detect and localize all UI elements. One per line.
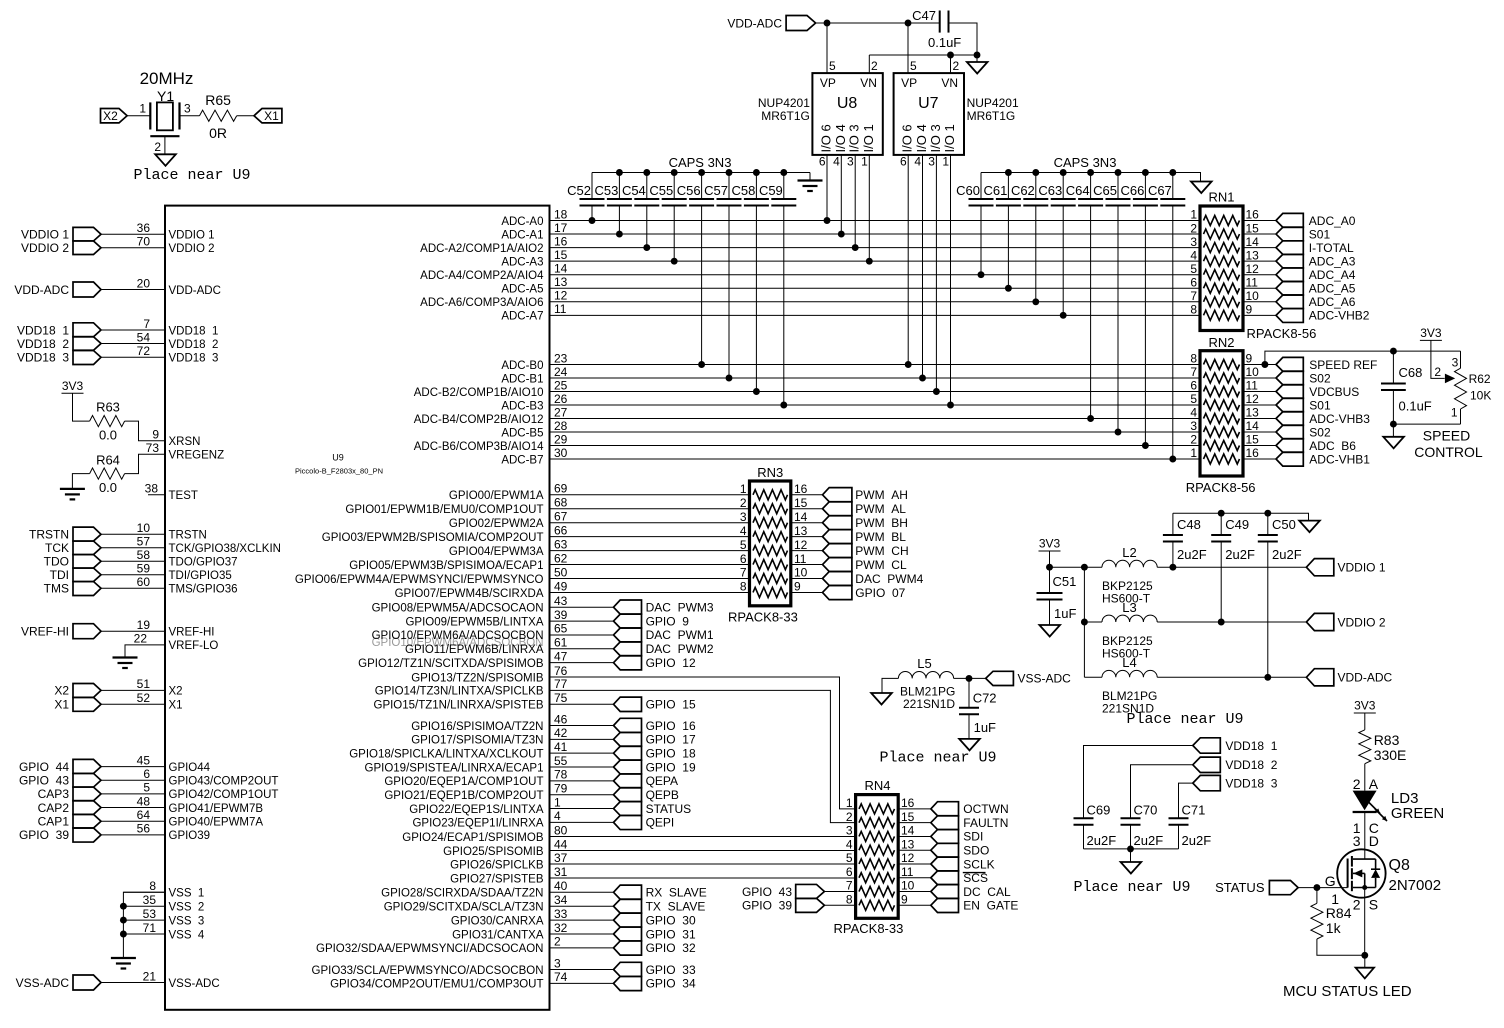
- svg-text:STATUS: STATUS: [1215, 880, 1265, 895]
- svg-text:VDD18 2: VDD18 2: [17, 337, 69, 351]
- junction C54 at ADC row: [643, 244, 650, 251]
- port VDD-ADC (filter): [1306, 669, 1333, 686]
- svg-text:25: 25: [554, 378, 568, 392]
- port ADC_A0: [1276, 213, 1303, 227]
- svg-text:7: 7: [1190, 365, 1197, 379]
- svg-text:X2: X2: [169, 686, 183, 698]
- svg-text:XRSN: XRSN: [169, 436, 201, 448]
- svg-text:PWM AL: PWM AL: [855, 502, 906, 516]
- wire RN4 pin 14 to port: [898, 835, 931, 837]
- svg-text:GPIO33/SCLA/EPWMSYNCO/ADCSOCBO: GPIO33/SCLA/EPWMSYNCO/ADCSOCBON: [312, 965, 544, 977]
- svg-text:5: 5: [829, 59, 836, 73]
- junction C59 at ADC row: [780, 402, 787, 409]
- wire U8 I/O pin to ADC row: [854, 155, 856, 248]
- wire to pin 64: [101, 820, 165, 822]
- svg-text:Place near U9: Place near U9: [1126, 711, 1243, 728]
- svg-text:23: 23: [554, 351, 568, 365]
- wire RN4 pin 15 to port: [898, 822, 931, 824]
- svg-text:GPIO 43: GPIO 43: [742, 885, 792, 899]
- junction U8 pin at ADC row: [866, 258, 873, 265]
- junction C68 top: [1390, 348, 1397, 355]
- wire RN3 pin 14 to port: [791, 522, 823, 524]
- resistor RN2 element 2: [1204, 373, 1240, 383]
- ground left of L5: [871, 693, 892, 705]
- svg-text:C53: C53: [595, 183, 619, 198]
- wire pin 80 to RN4: [550, 836, 856, 838]
- svg-text:4: 4: [740, 524, 747, 538]
- svg-text:X1: X1: [264, 109, 279, 123]
- svg-text:1: 1: [1451, 405, 1458, 419]
- svg-text:RPACK8-56: RPACK8-56: [1186, 480, 1256, 495]
- svg-text:38: 38: [145, 482, 159, 496]
- svg-text:STATUS: STATUS: [646, 802, 692, 816]
- svg-text:3: 3: [847, 155, 854, 169]
- svg-text:31: 31: [554, 865, 568, 879]
- svg-text:RPACK8-33: RPACK8-33: [834, 921, 904, 936]
- svg-text:1: 1: [139, 102, 146, 116]
- svg-text:11: 11: [1246, 379, 1259, 393]
- port SCS: [931, 871, 959, 885]
- wire VDD18 2 to pin 54: [101, 343, 165, 345]
- svg-text:59: 59: [137, 562, 151, 576]
- wire LED cathode to Q8 drain: [1364, 812, 1366, 859]
- svg-text:GPIO00/EPWM1A: GPIO00/EPWM1A: [449, 490, 544, 502]
- ground for left cap bank: [798, 179, 823, 181]
- ground for LED driver: [1356, 968, 1374, 979]
- svg-text:ADC-B0: ADC-B0: [501, 360, 543, 372]
- svg-text:1: 1: [1190, 446, 1197, 460]
- junction C61 at ADC row: [1005, 285, 1012, 292]
- svg-text:VP: VP: [901, 76, 917, 90]
- wire GPIO14 pin 77 to RN4 pin 2: [550, 690, 856, 822]
- junction C50 bottom: [1264, 674, 1271, 681]
- svg-text:GPIO 44: GPIO 44: [19, 760, 69, 774]
- wire pin 37 to RN4: [550, 863, 856, 865]
- svg-text:GPIO29/SCITXDA/SCLA/TZ3N: GPIO29/SCITXDA/SCLA/TZ3N: [384, 902, 544, 914]
- svg-text:7: 7: [740, 566, 747, 580]
- port GPIO 9: [614, 614, 642, 628]
- wire STATUS to Q8 gate: [1298, 887, 1348, 889]
- svg-text:S02: S02: [1309, 425, 1331, 439]
- svg-text:C66: C66: [1121, 183, 1145, 198]
- wire RN2 pin 10 to port: [1243, 377, 1276, 379]
- svg-text:6: 6: [740, 552, 747, 566]
- wire GPIO row pin 66 to RN3: [550, 536, 750, 538]
- wire pin row to port GPIO 17: [550, 738, 614, 740]
- svg-text:ADC-B4/COMP2B/AIO12: ADC-B4/COMP2B/AIO12: [414, 414, 544, 426]
- wire C60 to ADC row: [980, 205, 982, 275]
- svg-text:2u2F: 2u2F: [1182, 833, 1212, 848]
- port GPIO 33: [614, 962, 642, 976]
- ground for C48-C50 bus: [1299, 521, 1320, 533]
- svg-text:5: 5: [1190, 262, 1197, 276]
- svg-text:C63: C63: [1038, 183, 1062, 198]
- svg-text:RN2: RN2: [1208, 335, 1234, 350]
- svg-text:15: 15: [1246, 433, 1260, 447]
- svg-text:TMS/GPIO36: TMS/GPIO36: [169, 584, 238, 596]
- wire VDDIO2 to pin 70: [101, 247, 165, 249]
- resistor RN3 element 7: [753, 574, 788, 584]
- svg-text:QEPB: QEPB: [646, 788, 679, 802]
- svg-text:3: 3: [554, 956, 561, 970]
- svg-text:1uF: 1uF: [1054, 606, 1076, 621]
- port GPIO 32: [614, 941, 642, 955]
- wire R84 top lead: [1316, 888, 1318, 904]
- wire RN3 pin 13 to port: [791, 536, 823, 538]
- svg-text:72: 72: [137, 344, 151, 358]
- resistor RN4 element 3: [859, 831, 895, 841]
- wire RN2 pin 15 to port: [1243, 445, 1276, 447]
- wire to pin 56: [101, 834, 165, 836]
- wire C66 to ADC row: [1144, 205, 1146, 445]
- svg-text:75: 75: [554, 691, 568, 705]
- resistor RN3 element 8: [753, 587, 788, 597]
- svg-text:28: 28: [554, 419, 568, 433]
- svg-text:73: 73: [146, 441, 160, 455]
- svg-text:VDD18 1: VDD18 1: [17, 323, 69, 337]
- wire VDD-ADC rail: [816, 22, 940, 24]
- wire pin row to port GPIO 19: [550, 766, 614, 768]
- svg-text:14: 14: [794, 510, 808, 524]
- svg-text:GPIO27/SPISTEB: GPIO27/SPISTEB: [450, 873, 544, 885]
- svg-text:GPIO 12: GPIO 12: [646, 656, 696, 670]
- svg-text:C48: C48: [1177, 517, 1201, 532]
- svg-text:330E: 330E: [1374, 747, 1407, 763]
- svg-text:11: 11: [1246, 275, 1259, 289]
- svg-text:2: 2: [846, 810, 853, 824]
- pin 2 of Y1 wire to ground: [164, 136, 166, 154]
- svg-text:1: 1: [861, 155, 868, 169]
- ground below crystal: [155, 154, 176, 166]
- svg-text:2: 2: [1190, 433, 1197, 447]
- resistor RN1 element 6: [1204, 283, 1240, 293]
- port DAC PWM2: [614, 642, 642, 656]
- svg-text:EN GATE: EN GATE: [963, 899, 1018, 913]
- port DAC PWM3: [614, 600, 642, 614]
- svg-text:C54: C54: [622, 183, 646, 198]
- wire 3V3 to R83: [1364, 713, 1366, 730]
- wire pin row to port GPIO 30: [550, 919, 614, 921]
- port ADC_A5: [1276, 281, 1303, 295]
- wire RN1 pin 14 to port: [1243, 247, 1276, 249]
- svg-text:2N7002: 2N7002: [1389, 877, 1442, 894]
- svg-text:14: 14: [901, 824, 915, 838]
- port RX SLAVE: [614, 885, 642, 899]
- wire VDDIO1 to pin 36: [101, 233, 165, 235]
- svg-text:7: 7: [143, 317, 150, 331]
- svg-text:3V3: 3V3: [1354, 699, 1376, 713]
- wire TRSTN to pin 10: [101, 533, 165, 535]
- svg-text:CONTROL: CONTROL: [1414, 444, 1483, 460]
- svg-text:17: 17: [554, 221, 568, 235]
- wire C54 to ADC row: [646, 205, 648, 247]
- svg-text:40: 40: [554, 879, 568, 893]
- svg-text:I-TOTAL: I-TOTAL: [1309, 241, 1354, 255]
- svg-text:7: 7: [1190, 289, 1197, 303]
- junction U7 pin at ADC row: [905, 361, 912, 368]
- svg-text:I/O 1: I/O 1: [942, 124, 957, 152]
- svg-text:3: 3: [1353, 833, 1361, 849]
- svg-text:6: 6: [1190, 379, 1197, 393]
- ground below VREF-LO: [113, 656, 138, 658]
- wire pin 8 VSS 1: [123, 891, 165, 893]
- svg-text:S02: S02: [1309, 371, 1331, 385]
- svg-text:GPIO24/ECAP1/SPISIMOB: GPIO24/ECAP1/SPISIMOB: [402, 832, 544, 844]
- svg-text:GPIO04/EPWM3A: GPIO04/EPWM3A: [449, 546, 544, 558]
- svg-text:2: 2: [1353, 776, 1361, 792]
- svg-text:C51: C51: [1053, 574, 1077, 589]
- svg-text:10K: 10K: [1470, 389, 1491, 403]
- svg-text:QEPA: QEPA: [646, 774, 678, 788]
- svg-text:11: 11: [794, 552, 807, 566]
- junction C48 bottom: [1169, 564, 1176, 571]
- wire RN4 pin 11 to port: [898, 877, 931, 879]
- svg-text:SDI: SDI: [963, 830, 983, 844]
- wire pin row to port GPIO 9: [550, 620, 614, 622]
- IC U9 Piccolo-B_F2803x_80_PN body: [165, 206, 550, 1010]
- svg-text:I/O 6: I/O 6: [900, 124, 915, 152]
- junction U7 pin at ADC row: [933, 388, 940, 395]
- port X1: [254, 109, 282, 123]
- svg-text:GPIO15/TZ1N/LINRXA/SPISTEB: GPIO15/TZ1N/LINRXA/SPISTEB: [374, 700, 544, 712]
- svg-text:SPEED: SPEED: [1423, 427, 1470, 443]
- svg-text:RN3: RN3: [757, 465, 783, 480]
- wire cap bank bus (right): [981, 173, 1201, 182]
- svg-text:26: 26: [554, 392, 568, 406]
- svg-text:GPIO16/SPISIMOA/TZ2N: GPIO16/SPISIMOA/TZ2N: [411, 721, 543, 733]
- junction C58 at ADC row: [753, 388, 760, 395]
- svg-text:TDO/GPIO37: TDO/GPIO37: [169, 557, 238, 569]
- junction C66 at ADC row: [1142, 442, 1149, 449]
- svg-text:ADC-VHB2: ADC-VHB2: [1309, 309, 1370, 323]
- svg-text:4: 4: [1190, 406, 1197, 420]
- svg-text:R65: R65: [205, 92, 231, 108]
- svg-text:10: 10: [794, 566, 808, 580]
- svg-text:C57: C57: [704, 183, 728, 198]
- port GPIO 31: [614, 927, 642, 941]
- svg-text:2u2F: 2u2F: [1225, 547, 1255, 562]
- svg-text:16: 16: [554, 234, 568, 248]
- svg-text:19: 19: [137, 618, 151, 632]
- junction L3/L4 branch: [1081, 564, 1088, 571]
- svg-text:10: 10: [1246, 289, 1260, 303]
- svg-text:GPIO 39: GPIO 39: [19, 828, 69, 842]
- port DAC PWM4: [823, 572, 852, 586]
- wire ADC-B row pin 24 to RN2: [550, 377, 1201, 379]
- svg-text:9: 9: [1246, 303, 1253, 317]
- wire branch down to L3 and L4: [1083, 567, 1085, 677]
- svg-text:8: 8: [1190, 303, 1197, 317]
- svg-text:ADC-A7: ADC-A7: [501, 311, 543, 323]
- svg-text:GPIO39: GPIO39: [169, 830, 211, 842]
- port ADC-VHB1: [1276, 452, 1303, 466]
- wire ADC-B row pin 30 to RN2: [550, 458, 1201, 460]
- svg-text:6: 6: [1190, 275, 1197, 289]
- svg-text:3: 3: [846, 824, 853, 838]
- svg-text:GPIO12/TZ1N/SCITXDA/SPISIMOB: GPIO12/TZ1N/SCITXDA/SPISIMOB: [358, 658, 544, 670]
- wire U8 VP pin 5: [826, 23, 828, 73]
- svg-text:0.1uF: 0.1uF: [1399, 399, 1432, 414]
- svg-text:2u2F: 2u2F: [1134, 833, 1164, 848]
- svg-text:5: 5: [1190, 392, 1197, 406]
- svg-text:OCTWN: OCTWN: [963, 802, 1008, 816]
- svg-text:12: 12: [1246, 262, 1260, 276]
- transistor Q8 2N7002: [1337, 849, 1385, 897]
- svg-text:37: 37: [554, 851, 568, 865]
- junction U7 pin at ADC row: [947, 402, 954, 409]
- svg-text:GPIO10/EPWM6A/ADCSOCBON: GPIO10/EPWM6A/ADCSOCBON: [372, 637, 544, 649]
- svg-text:VSS-ADC: VSS-ADC: [169, 978, 220, 990]
- wire R64 to ground: [72, 474, 89, 489]
- svg-text:GPIO07/EPWM4B/SCIRXDA: GPIO07/EPWM4B/SCIRXDA: [395, 588, 544, 600]
- wire RN3 pin 10 to port: [791, 578, 823, 580]
- svg-text:L2: L2: [1122, 545, 1136, 560]
- resistor RN3 element 6: [753, 560, 788, 570]
- wire ground stub (speed control): [1392, 424, 1394, 437]
- junction cap bus: [1115, 169, 1122, 176]
- svg-text:79: 79: [554, 782, 568, 796]
- svg-text:X2: X2: [103, 109, 118, 123]
- port ADC B6: [1276, 439, 1303, 453]
- junction VSS 4: [120, 931, 127, 938]
- wire RN1 pin 9 to port: [1243, 314, 1276, 316]
- svg-text:2: 2: [1434, 365, 1441, 379]
- junction U8 VP: [824, 20, 831, 27]
- resistor R84 value 1k: [1311, 903, 1323, 939]
- wire GPIO 39 to RN4 pin 8: [824, 904, 855, 906]
- svg-text:16: 16: [794, 482, 808, 496]
- svg-text:TMS: TMS: [44, 582, 69, 596]
- wire ADC-A row pin 12 to RN1: [550, 301, 1201, 303]
- port ADC_A4: [1276, 268, 1303, 282]
- wire to pin 5: [101, 793, 165, 795]
- wire U7 VP pin 5: [907, 23, 909, 73]
- wire GPIO row pin 68 to RN3: [550, 508, 750, 510]
- wire RN3 pin 9 to port: [791, 591, 823, 593]
- svg-text:8: 8: [149, 879, 156, 893]
- svg-text:13: 13: [901, 837, 915, 851]
- svg-text:24: 24: [554, 365, 568, 379]
- svg-text:PWM AH: PWM AH: [855, 488, 908, 502]
- wire pot bottom rail: [1393, 423, 1460, 425]
- svg-text:VDDIO 1: VDDIO 1: [21, 228, 69, 242]
- junction cap bus: [1169, 169, 1176, 176]
- junction cap bus: [1087, 169, 1094, 176]
- junction cap bus: [1142, 169, 1149, 176]
- wire pin row to port DAC PWM3: [550, 606, 614, 608]
- junction C72 top: [966, 675, 973, 682]
- svg-text:3: 3: [1190, 419, 1197, 433]
- wire RN2 pin 11 to port: [1243, 391, 1276, 393]
- svg-text:DAC PWM4: DAC PWM4: [855, 572, 923, 586]
- svg-text:VDD18 2: VDD18 2: [1225, 758, 1277, 772]
- svg-text:8: 8: [1190, 352, 1197, 366]
- svg-text:GPIO 15: GPIO 15: [646, 698, 696, 712]
- Q8 body diode: [1371, 868, 1380, 870]
- resistor RN1 element 3: [1204, 243, 1240, 253]
- svg-text:ADC-B3: ADC-B3: [501, 400, 543, 412]
- svg-text:DAC PWM2: DAC PWM2: [646, 642, 714, 656]
- svg-text:2u2F: 2u2F: [1177, 547, 1207, 562]
- wire C64 to ADC row: [1090, 205, 1092, 418]
- ground below C72: [959, 739, 980, 751]
- svg-text:GPIO 07: GPIO 07: [855, 586, 905, 600]
- wire U7 I/O pin to ADC row: [935, 155, 937, 392]
- svg-text:TRSTN: TRSTN: [29, 528, 69, 542]
- svg-text:ADC-VHB1: ADC-VHB1: [1309, 452, 1370, 466]
- svg-text:QEPI: QEPI: [646, 816, 675, 830]
- svg-text:2: 2: [740, 496, 747, 510]
- svg-text:GREEN: GREEN: [1391, 805, 1444, 822]
- svg-text:VREF-LO: VREF-LO: [169, 640, 219, 652]
- svg-text:1uF: 1uF: [974, 720, 996, 735]
- wire U7 I/O pin to ADC row: [950, 155, 952, 405]
- svg-text:C70: C70: [1134, 802, 1158, 817]
- wire C67 to ADC row: [1172, 205, 1174, 459]
- port GPIO 19: [614, 760, 642, 774]
- wire RN3 pin 16 to port: [791, 494, 823, 496]
- wire VREF-HI to pin 19: [101, 630, 165, 632]
- wire VREF-LO pin 22 to ground: [125, 645, 165, 657]
- svg-text:1k: 1k: [1326, 920, 1342, 936]
- svg-text:16: 16: [1246, 446, 1260, 460]
- svg-text:4: 4: [846, 837, 853, 851]
- wire pin 71 VSS 4: [123, 933, 165, 935]
- svg-text:C58: C58: [732, 183, 756, 198]
- svg-text:5: 5: [846, 851, 853, 865]
- wire C65 to ADC row: [1117, 205, 1119, 432]
- svg-text:GPIO25/SPISOMIB: GPIO25/SPISOMIB: [443, 846, 544, 858]
- wire to pin 45: [101, 766, 165, 768]
- svg-text:14: 14: [554, 262, 568, 276]
- svg-text:ADC-A4/COMP2A/AIO4: ADC-A4/COMP2A/AIO4: [420, 270, 544, 282]
- wire U8 VN pin 2: [868, 55, 870, 73]
- wire pin 35 VSS 2: [123, 905, 165, 907]
- wire R63 to XRSN pin 9: [125, 421, 165, 441]
- svg-text:15: 15: [901, 810, 915, 824]
- svg-text:MCU STATUS LED: MCU STATUS LED: [1283, 983, 1412, 1000]
- svg-text:2: 2: [1353, 897, 1361, 913]
- svg-text:0R: 0R: [209, 125, 227, 141]
- svg-text:51: 51: [137, 677, 151, 691]
- port VDDIO 2 (filter): [1306, 613, 1333, 630]
- svg-text:5: 5: [910, 59, 917, 73]
- svg-text:VDD18 2: VDD18 2: [169, 339, 219, 351]
- wire TDO to pin 58: [101, 560, 165, 562]
- svg-text:4: 4: [554, 809, 561, 823]
- svg-text:ADC-A1: ADC-A1: [501, 229, 543, 241]
- svg-text:GPIO 31: GPIO 31: [646, 927, 696, 941]
- svg-text:C52: C52: [567, 183, 591, 198]
- wire RN4 pin 12 to port: [898, 863, 931, 865]
- wire pin 44 to RN4: [550, 850, 856, 852]
- wire pin row to port DAC PWM1: [550, 634, 614, 636]
- junction C60 at ADC row: [978, 271, 985, 278]
- svg-text:DAC PWM3: DAC PWM3: [646, 601, 714, 615]
- wire RN1 pin 15 to port: [1243, 233, 1276, 235]
- svg-text:GPIO28/SCIRXDA/SDAA/TZ2N: GPIO28/SCIRXDA/SDAA/TZ2N: [381, 888, 543, 900]
- svg-text:67: 67: [554, 510, 568, 524]
- wire VDD-ADC to pin 20: [101, 289, 165, 291]
- wire RN1 pin 13 to port: [1243, 260, 1276, 262]
- svg-text:C68: C68: [1399, 365, 1423, 380]
- svg-text:41: 41: [554, 740, 568, 754]
- svg-text:ADC-A2/COMP1A/AIO2: ADC-A2/COMP1A/AIO2: [420, 243, 543, 255]
- wire ADC-A row pin 17 to RN1: [550, 233, 1201, 235]
- junction C51 tap: [1046, 564, 1053, 571]
- LED LD3 GREEN: [1353, 791, 1377, 811]
- svg-text:3: 3: [1190, 235, 1197, 249]
